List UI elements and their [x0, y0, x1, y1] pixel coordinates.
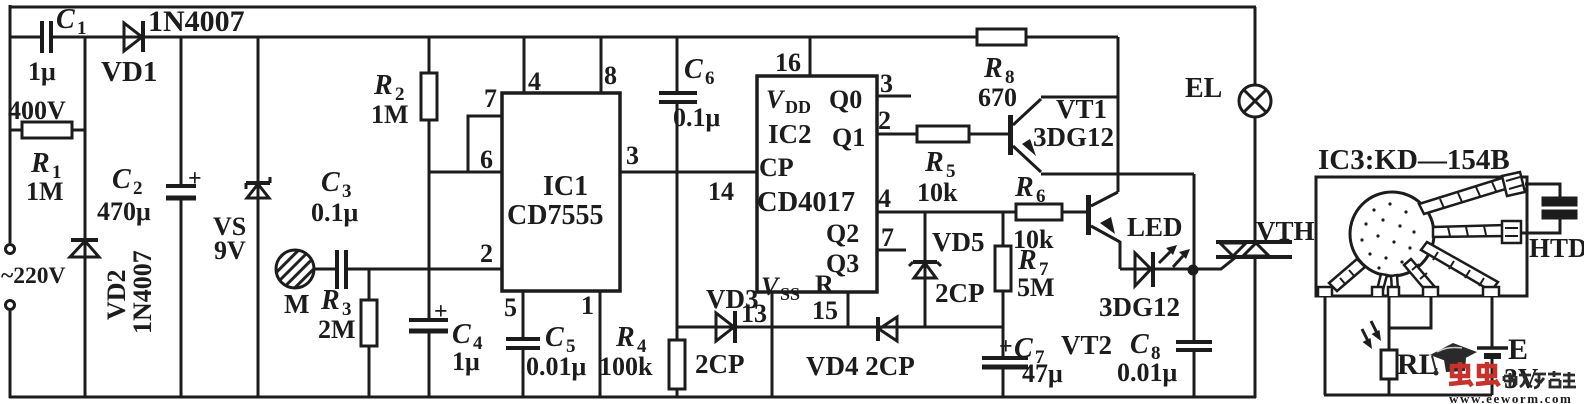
- svg-text:RL: RL: [1397, 348, 1439, 381]
- svg-text:3: 3: [880, 69, 893, 98]
- svg-text:VT2: VT2: [1061, 330, 1112, 360]
- svg-text:+: +: [188, 166, 202, 192]
- svg-text:V: V: [761, 272, 781, 301]
- watermark site name: [1504, 371, 1576, 388]
- label 100k: [599, 352, 653, 381]
- wire C2 vertical: [180, 37, 183, 397]
- diode VD5: [909, 212, 941, 327]
- wire gate to triac: [1194, 257, 1236, 269]
- IC3 bond strip bottom center: [1377, 274, 1398, 290]
- photoresistor arrows: [1362, 321, 1381, 349]
- transistor VT1: [1008, 97, 1118, 172]
- svg-text:14: 14: [708, 177, 734, 206]
- pin 13 IC2: [741, 299, 767, 328]
- svg-text:Q1: Q1: [832, 123, 865, 152]
- label plus C7: [999, 334, 1013, 360]
- label VSS: [761, 272, 800, 304]
- label CD4017: [757, 187, 855, 218]
- svg-text:Q2: Q2: [826, 219, 859, 248]
- label C4: [452, 319, 483, 354]
- svg-text:SS: SS: [780, 284, 800, 304]
- label R1: [30, 148, 62, 183]
- wire top border AC line: [10, 6, 1256, 9]
- label R4: [615, 322, 647, 357]
- wire pin1 ground: [599, 291, 602, 397]
- wire VD3 reset line: [677, 326, 1003, 329]
- watermark graduation cap: [1430, 343, 1477, 376]
- svg-text:1N4007: 1N4007: [128, 250, 157, 334]
- svg-text:IC2: IC2: [768, 119, 812, 149]
- pin 7 IC2: [881, 223, 894, 252]
- label Q1: [832, 123, 865, 152]
- svg-text:CD4017: CD4017: [757, 187, 855, 218]
- IC3 box: [1316, 177, 1527, 296]
- label IC1: [543, 171, 588, 202]
- wire pin4: [523, 37, 526, 93]
- resistor R4: [669, 340, 685, 389]
- label plus C2: [188, 166, 202, 192]
- label VD3: [706, 284, 759, 314]
- svg-text:2M: 2M: [318, 315, 356, 344]
- label 400V: [8, 96, 66, 125]
- svg-text:CD7555: CD7555: [507, 200, 603, 231]
- label 47u: [1022, 359, 1063, 388]
- label VTH: [1256, 216, 1315, 246]
- label LED: [1127, 212, 1183, 242]
- label E: [1508, 333, 1528, 366]
- svg-text:9V: 9V: [214, 236, 246, 265]
- label 1M R1: [26, 177, 64, 206]
- svg-text:1: 1: [581, 291, 594, 320]
- pin 5 IC1: [504, 293, 517, 322]
- label 10k R6: [1013, 225, 1054, 254]
- svg-text:R: R: [1014, 172, 1034, 203]
- wire left border: [9, 5, 12, 398]
- wire mic to C3: [314, 268, 337, 271]
- label VDD: [766, 85, 811, 117]
- label 220V: [1, 263, 65, 289]
- svg-text:4: 4: [528, 67, 541, 96]
- pin 2 IC2: [878, 106, 891, 135]
- svg-text:VTH: VTH: [1256, 216, 1315, 246]
- label 3V: [1504, 364, 1538, 395]
- wire VT1 emitter to gate node: [1041, 174, 1194, 269]
- svg-text:CP: CP: [759, 153, 794, 182]
- svg-text:R: R: [615, 322, 635, 353]
- wire R2 down to C4: [428, 172, 431, 320]
- label RL: [1397, 348, 1439, 381]
- capacitor C7: [982, 358, 1028, 397]
- label 2CP VD3: [695, 349, 745, 379]
- label IC3 KD-154B: [1318, 144, 1510, 176]
- label 0.01u C5: [526, 352, 587, 381]
- svg-text:R: R: [1017, 245, 1037, 276]
- piezo buzzer HTD: [1521, 184, 1576, 233]
- label 1u: [28, 57, 56, 86]
- diode VD1: [124, 21, 143, 52]
- svg-text:0.1μ: 0.1μ: [311, 198, 359, 227]
- svg-text:47μ: 47μ: [1022, 359, 1063, 388]
- svg-text:8: 8: [604, 61, 617, 90]
- pin 3 IC1: [626, 141, 639, 170]
- svg-text:C: C: [452, 319, 471, 350]
- pin 8 IC1: [604, 61, 617, 90]
- wire right side EL branch: [1254, 7, 1257, 398]
- svg-text:VD5: VD5: [932, 227, 985, 257]
- svg-text:1μ: 1μ: [452, 347, 480, 376]
- IC3 bond strip lower left: [1329, 259, 1365, 291]
- wire R2 to pin6: [429, 171, 502, 174]
- wire IC3 pin RL: [1389, 296, 1431, 350]
- wire VCC rail: [10, 36, 1118, 39]
- label 3DG12 VT1: [1033, 122, 1114, 152]
- svg-text:R: R: [815, 270, 834, 299]
- capacitor C4: [409, 320, 448, 397]
- wire pin16: [809, 37, 812, 76]
- svg-text:C: C: [56, 4, 75, 35]
- svg-text:0.01μ: 0.01μ: [526, 352, 587, 381]
- svg-text:2CP: 2CP: [695, 349, 745, 379]
- label C5: [545, 322, 576, 357]
- pin 7 IC1: [484, 84, 497, 113]
- label 10k R5: [917, 178, 958, 207]
- wire bottom border: [9, 396, 1256, 399]
- svg-text:VD1: VD1: [101, 56, 157, 88]
- diode VD2: [70, 240, 99, 257]
- triac VTH: [1216, 242, 1292, 257]
- label Q0: [829, 85, 862, 114]
- label R6: [1014, 172, 1046, 207]
- svg-text:IC1: IC1: [543, 171, 588, 202]
- svg-text:VT1: VT1: [1056, 94, 1107, 124]
- svg-text:3DG12: 3DG12: [1033, 122, 1114, 152]
- svg-text:www.eeworm.com: www.eeworm.com: [1449, 391, 1572, 404]
- microphone M: [276, 250, 314, 288]
- label 1M R2: [371, 100, 409, 129]
- svg-text:1μ: 1μ: [28, 57, 56, 86]
- svg-text:C: C: [321, 167, 340, 198]
- wire C3 to IC1 pin2: [346, 268, 502, 271]
- label IC2: [768, 119, 812, 149]
- label VD2 1N4007 rotated: [102, 250, 157, 334]
- label 2M: [318, 315, 356, 344]
- label plus C4: [434, 299, 448, 325]
- svg-text:100k: 100k: [599, 352, 653, 381]
- IC3 bond strip lower right long: [1421, 242, 1498, 291]
- svg-text:0.1μ: 0.1μ: [673, 103, 721, 132]
- wire IC3 pin left ground: [1324, 296, 1327, 395]
- wire pin15: [847, 292, 850, 327]
- wire pin3 to pin14: [620, 171, 757, 174]
- svg-text:5M: 5M: [1017, 273, 1055, 302]
- svg-text:LED: LED: [1127, 212, 1183, 242]
- svg-text:2: 2: [480, 239, 493, 268]
- label VD5: [932, 227, 985, 257]
- resistor R3: [361, 269, 377, 397]
- svg-text:2CP: 2CP: [935, 278, 985, 308]
- svg-text:7: 7: [881, 223, 894, 252]
- zener diode VS: [246, 37, 270, 397]
- svg-text:R: R: [983, 53, 1003, 84]
- label R7: [1017, 245, 1049, 280]
- label VT2: [1061, 330, 1112, 360]
- svg-text:~220V: ~220V: [1, 263, 65, 289]
- svg-text:R: R: [30, 148, 50, 179]
- IC3 bond strip upper right: [1419, 177, 1509, 214]
- label 470u: [97, 197, 151, 226]
- svg-text:HTD: HTD: [1529, 233, 1584, 263]
- svg-text:0.01μ: 0.01μ: [1117, 358, 1178, 387]
- IC3 bottom tab 1: [1318, 287, 1332, 296]
- svg-text:2: 2: [133, 178, 143, 199]
- resistor R7: [995, 212, 1011, 358]
- pin 16 IC2: [775, 48, 801, 77]
- svg-text:16: 16: [775, 48, 801, 77]
- label 3DG12 VT2: [1099, 292, 1180, 322]
- pin 14 IC2: [708, 177, 734, 206]
- svg-text:3DG12: 3DG12: [1099, 292, 1180, 322]
- resistor R6: [1016, 204, 1062, 220]
- svg-text:7: 7: [484, 84, 497, 113]
- wire Q2 to VT2 base: [877, 211, 1087, 214]
- svg-text:M: M: [284, 289, 309, 319]
- resistor R1: [10, 122, 85, 138]
- svg-text:R: R: [320, 285, 340, 316]
- IC3 bottom tab 3: [1423, 287, 1438, 296]
- pin 6 IC1: [480, 145, 493, 174]
- LED: [1120, 245, 1194, 287]
- label 0.1u C3: [311, 198, 359, 227]
- resistor R5: [917, 126, 969, 142]
- svg-text:VD4 2CP: VD4 2CP: [806, 351, 915, 381]
- capacitor C5: [506, 339, 540, 348]
- svg-text:1N4007: 1N4007: [148, 5, 245, 38]
- svg-text:1M: 1M: [26, 177, 64, 206]
- IC3 die circle: [1350, 192, 1434, 276]
- svg-text:470μ: 470μ: [97, 197, 151, 226]
- svg-text:+: +: [999, 334, 1013, 360]
- wire Q0 stub: [877, 95, 911, 98]
- svg-text:6: 6: [705, 68, 715, 89]
- watermark chongchong characters: [1449, 362, 1499, 386]
- IC2 CD4017 box: [757, 76, 877, 292]
- svg-text:400V: 400V: [8, 96, 66, 125]
- battery E: [1477, 296, 1508, 395]
- resistor R2: [421, 37, 437, 172]
- label M: [284, 289, 309, 319]
- capacitor C1: [42, 21, 51, 53]
- wire Q1 to VT1 base: [877, 133, 1009, 136]
- label C6: [684, 54, 715, 89]
- capacitor C8: [1176, 269, 1212, 397]
- label HTD: [1529, 233, 1584, 263]
- lamp EL: [1239, 85, 1271, 117]
- svg-text:C: C: [1130, 329, 1149, 360]
- IC3 bond strip right: [1433, 225, 1505, 237]
- label 670: [978, 83, 1017, 112]
- svg-text:R: R: [373, 70, 393, 101]
- svg-text:C: C: [684, 54, 703, 85]
- pin 3 IC2: [880, 69, 893, 98]
- svg-text:DD: DD: [785, 97, 811, 117]
- svg-text:V: V: [766, 85, 786, 114]
- svg-text:670: 670: [978, 83, 1017, 112]
- resistor R8: [977, 29, 1026, 45]
- label R8: [983, 53, 1015, 88]
- svg-text:13: 13: [741, 299, 767, 328]
- svg-text:1: 1: [77, 18, 87, 39]
- label C1: [56, 4, 87, 39]
- pin 15 IC2: [812, 296, 838, 325]
- label VS: [213, 212, 246, 241]
- op-amp IC1 CD7555 box: [502, 93, 620, 291]
- label VT1: [1056, 94, 1107, 124]
- svg-text:IC3:KD—154B: IC3:KD—154B: [1318, 144, 1510, 176]
- diode VD3: [716, 311, 735, 343]
- pin 4 IC2: [878, 184, 891, 213]
- svg-text:15: 15: [812, 296, 838, 325]
- svg-text:1M: 1M: [371, 100, 409, 129]
- wire pin8: [600, 37, 603, 93]
- wire R8 collector vertical: [1117, 37, 1120, 192]
- pin 2 IC1: [480, 239, 493, 268]
- label R2: [373, 70, 405, 105]
- label CD7555: [507, 200, 603, 231]
- label CP: [759, 153, 794, 182]
- label VD1: [101, 56, 157, 88]
- svg-text:5: 5: [504, 293, 517, 322]
- watermark url: [1449, 391, 1572, 404]
- svg-text:3: 3: [626, 141, 639, 170]
- node AC terminal lower: [6, 301, 15, 310]
- label R5: [924, 147, 956, 182]
- wire C1 R1 VD2 vertical: [84, 37, 87, 397]
- wire pin7 bracket: [468, 116, 502, 172]
- label 0.01u C8: [1117, 358, 1178, 387]
- photoresistor RL: [1381, 350, 1397, 395]
- IC3 bottom tab 4: [1483, 287, 1499, 296]
- label 9V: [214, 236, 246, 265]
- label Q2: [826, 219, 859, 248]
- IC3 pad right: [1502, 221, 1521, 243]
- wire IC3 bottom rail: [1324, 394, 1492, 397]
- label EL: [1185, 73, 1222, 104]
- diode VD4: [878, 317, 897, 341]
- IC3 bond strip lower mid: [1404, 259, 1434, 291]
- svg-text:VD2: VD2: [102, 269, 131, 320]
- label VD4 2CP: [806, 351, 915, 381]
- wire pin5 with C5: [522, 291, 525, 397]
- svg-text:C: C: [112, 164, 131, 195]
- label 5M: [1017, 273, 1055, 302]
- svg-text:+: +: [434, 299, 448, 325]
- svg-text:C: C: [545, 322, 564, 353]
- pin 4 IC1: [528, 67, 541, 96]
- svg-text:10k: 10k: [917, 178, 958, 207]
- label R reset: [815, 270, 834, 299]
- label C8: [1130, 329, 1161, 364]
- capacitor C6: [659, 93, 697, 102]
- IC3 pad upper right: [1502, 172, 1525, 196]
- capacitor C3: [337, 250, 346, 289]
- capacitor C2: [166, 186, 196, 198]
- label Q3: [826, 249, 859, 278]
- svg-text:Q0: Q0: [829, 85, 862, 114]
- label 2CP VD5: [935, 278, 985, 308]
- label 1N4007: [148, 5, 245, 38]
- label R3: [320, 285, 352, 320]
- svg-text:E: E: [1508, 333, 1528, 366]
- label C3: [321, 167, 352, 202]
- svg-text:EL: EL: [1185, 73, 1222, 104]
- svg-text:6: 6: [1036, 186, 1046, 207]
- svg-text:4: 4: [878, 184, 891, 213]
- svg-text:R: R: [924, 147, 944, 178]
- transistor VT2: [1086, 192, 1120, 269]
- wire Q3 stub: [877, 249, 906, 252]
- IC3 bottom tab 2: [1372, 287, 1399, 296]
- svg-text:2: 2: [878, 106, 891, 135]
- node gate junction dot: [1188, 265, 1199, 276]
- label C2: [112, 164, 143, 199]
- label 0.1u C6: [673, 103, 721, 132]
- pin 1 IC1: [581, 291, 594, 320]
- node AC terminal upper: [6, 245, 15, 254]
- label 1u C4: [452, 347, 480, 376]
- wire C6 R4 vertical: [676, 37, 679, 397]
- label C7: [1014, 333, 1045, 368]
- svg-text:6: 6: [480, 145, 493, 174]
- wire pin13 ground: [771, 292, 774, 397]
